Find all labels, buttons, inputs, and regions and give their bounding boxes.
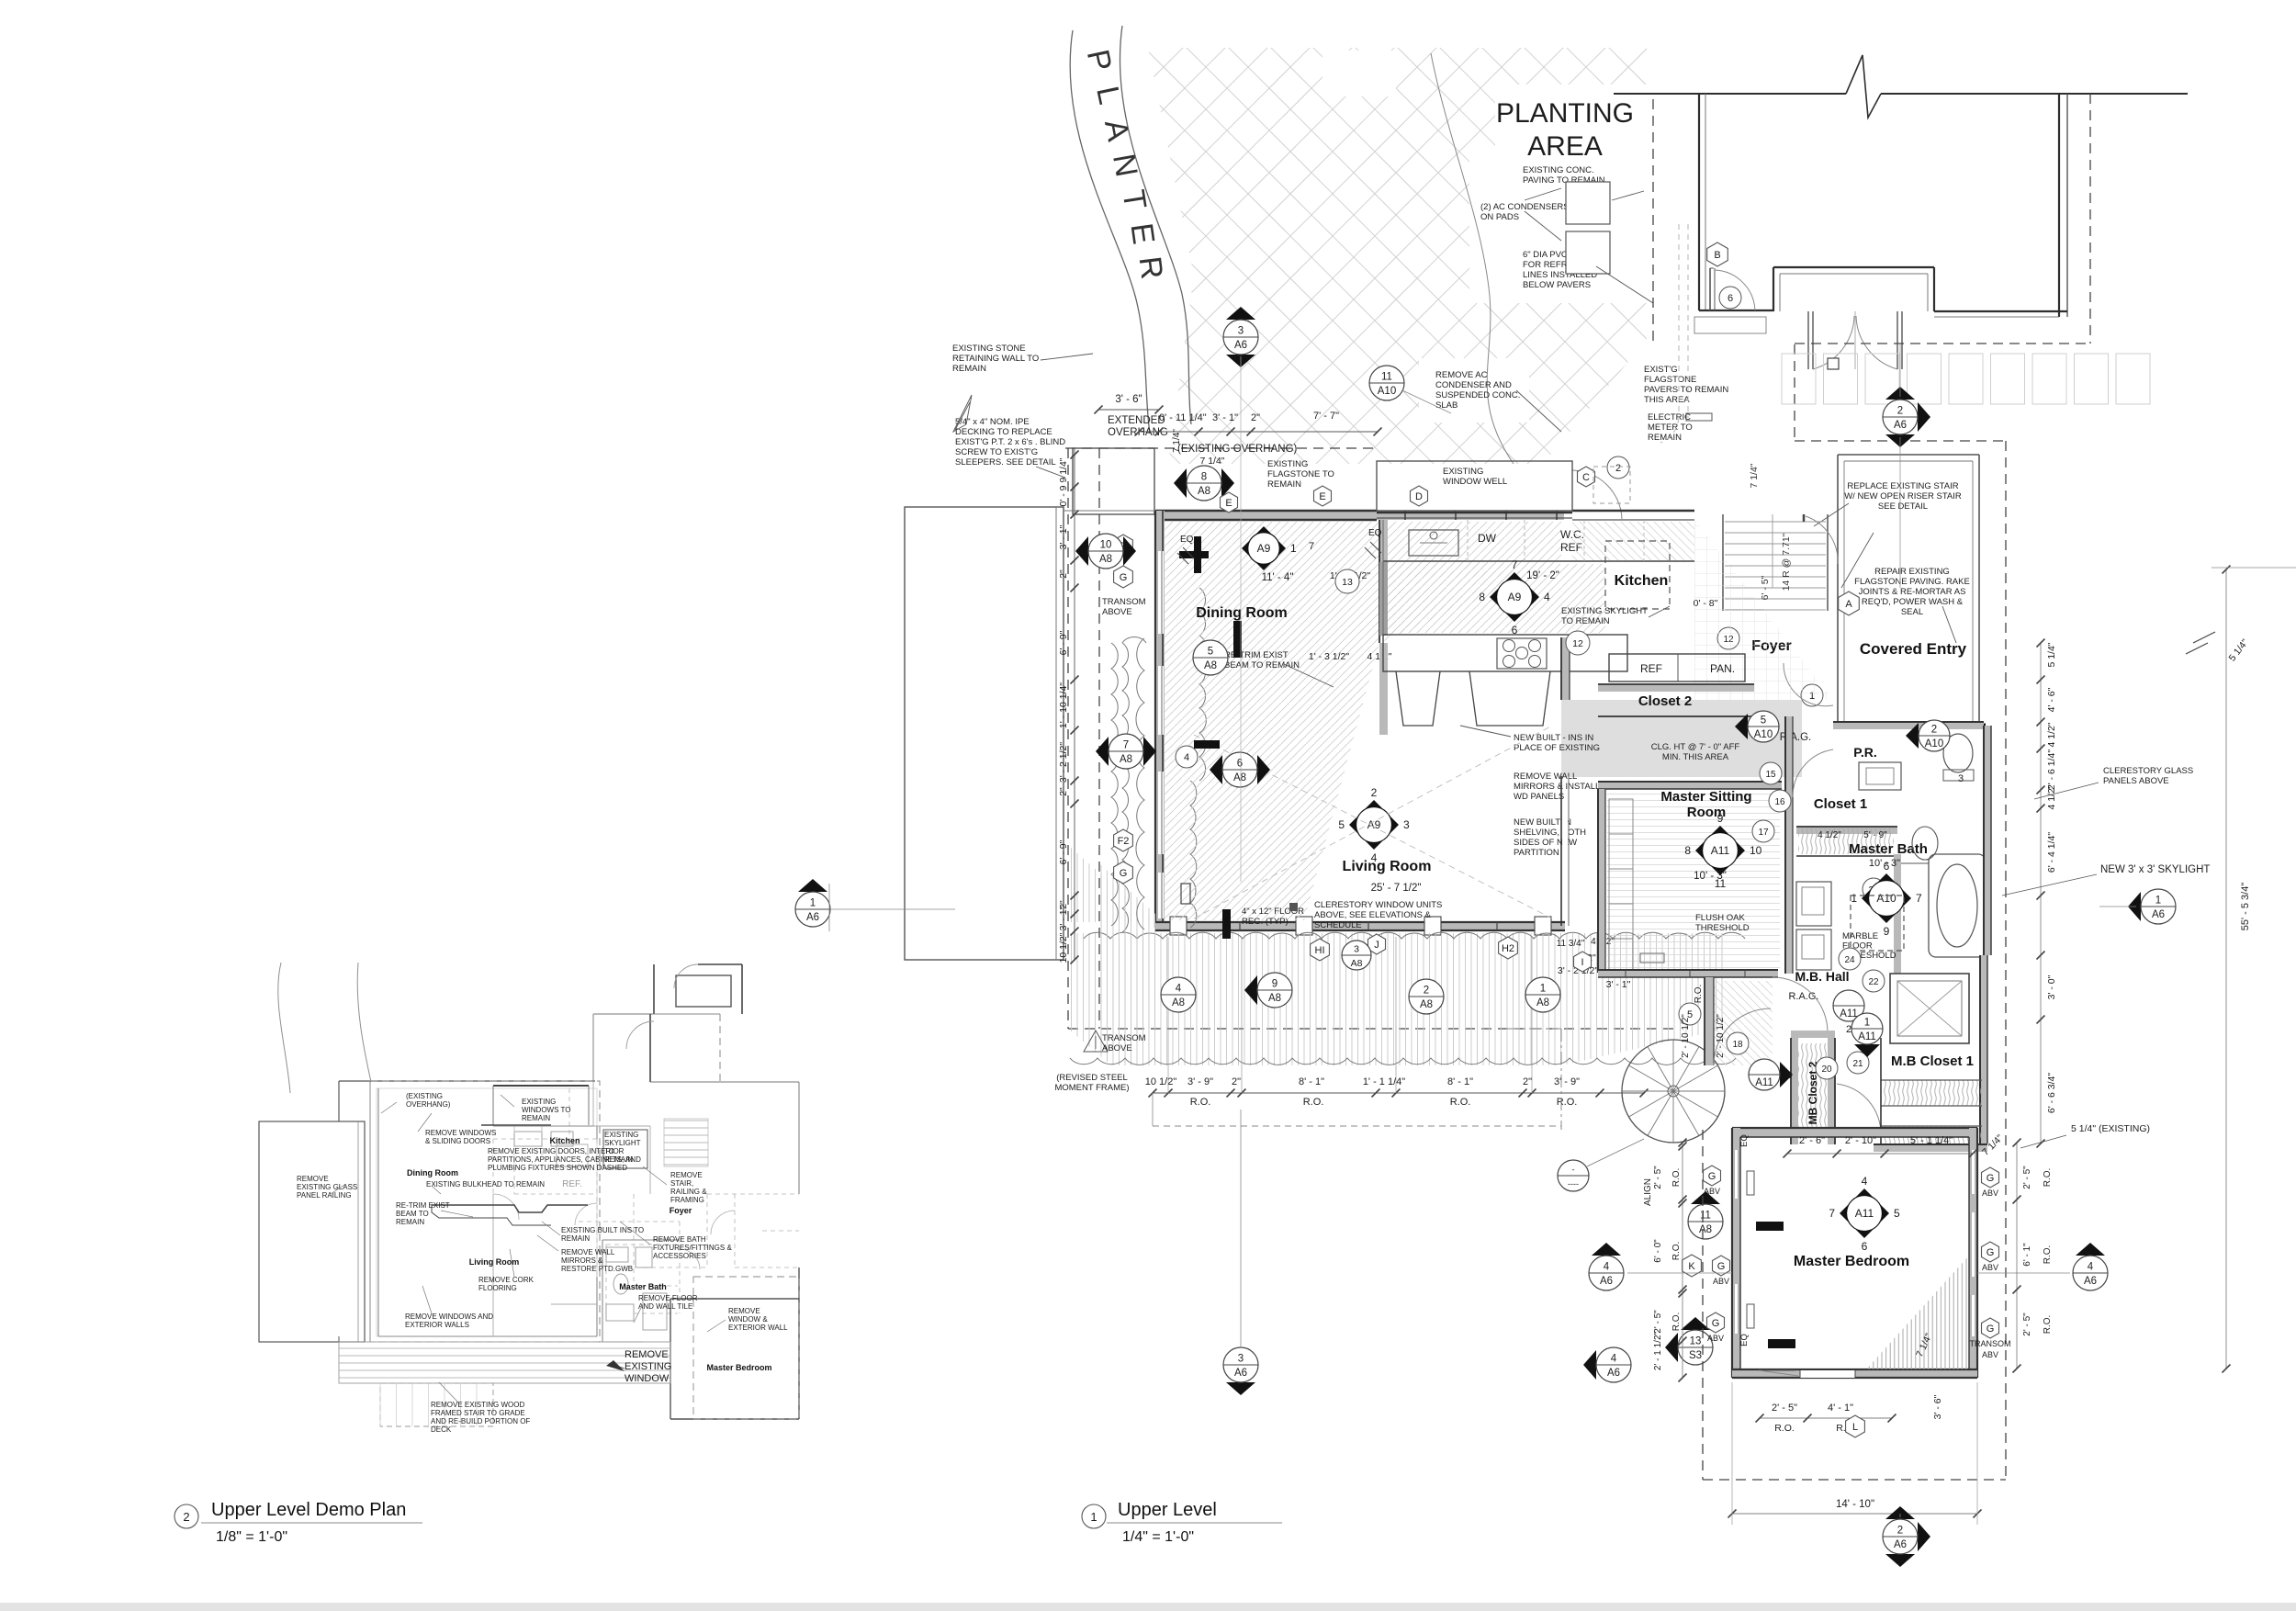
svg-text:3' - 9": 3' - 9" <box>1187 1076 1213 1087</box>
window well <box>1377 461 1572 511</box>
svg-text:A6: A6 <box>1600 1276 1613 1287</box>
svg-text:3: 3 <box>1238 1354 1244 1365</box>
spiral stair <box>1622 1040 1725 1143</box>
svg-text:R.O.: R.O. <box>1450 1097 1471 1108</box>
svg-text:RESTORE PTD.GWB: RESTORE PTD.GWB <box>561 1265 633 1273</box>
svg-text:REMOVE WINDOWS AND: REMOVE WINDOWS AND <box>405 1312 493 1321</box>
svg-text:A8: A8 <box>1351 958 1363 969</box>
svg-text:EXISTING: EXISTING <box>1267 459 1308 469</box>
kitchen counters <box>1383 560 1694 562</box>
svg-text:EXIST'G P.T. 2 x 6's . BLIND: EXIST'G P.T. 2 x 6's . BLIND <box>955 437 1065 447</box>
svg-text:2' - 10": 2' - 10" <box>1845 1135 1876 1146</box>
svg-text:17: 17 <box>1758 828 1769 838</box>
svg-text:18: 18 <box>1732 1040 1743 1050</box>
AC condenser pads <box>1566 182 1610 224</box>
svg-text:2' - 5": 2' - 5" <box>2022 1166 2032 1189</box>
svg-text:A9: A9 <box>1508 591 1522 603</box>
svg-text:A6: A6 <box>1234 340 1247 351</box>
svg-text:7 1/4": 7 1/4" <box>1749 463 1760 488</box>
svg-text:EXISTING: EXISTING <box>604 1131 638 1139</box>
svg-text:A8: A8 <box>1233 772 1246 783</box>
svg-text:THIS AREA: THIS AREA <box>1644 395 1690 405</box>
svg-text:Master Bath: Master Bath <box>619 1282 667 1291</box>
svg-text:FLOORING: FLOORING <box>478 1284 517 1292</box>
svg-text:REMOVE: REMOVE <box>297 1175 329 1183</box>
svg-text:PAVERS TO REMAIN: PAVERS TO REMAIN <box>1644 385 1728 395</box>
svg-text:ABV: ABV <box>1704 1187 1720 1196</box>
svg-text:D: D <box>1415 491 1423 502</box>
svg-text:AND WALL TILE: AND WALL TILE <box>638 1302 692 1311</box>
svg-text:A8: A8 <box>1120 754 1132 765</box>
svg-text:4: 4 <box>2088 1262 2094 1273</box>
svg-text:1: 1 <box>2155 896 2161 907</box>
svg-text:15: 15 <box>1765 770 1776 780</box>
svg-text:11: 11 <box>1700 1211 1711 1222</box>
master bath <box>1894 854 1901 974</box>
svg-text:DECKING TO REPLACE: DECKING TO REPLACE <box>955 427 1052 437</box>
svg-text:& SLIDING DOORS: & SLIDING DOORS <box>425 1137 490 1145</box>
svg-text:4 1/2": 4 1/2" <box>2046 784 2057 809</box>
svg-text:3: 3 <box>1958 773 1964 784</box>
stair <box>1722 514 1724 611</box>
svg-text:G: G <box>1708 1171 1716 1182</box>
svg-text:A8: A8 <box>1198 486 1210 497</box>
svg-text:PANELS ABOVE: PANELS ABOVE <box>2103 776 2169 786</box>
svg-text:A6: A6 <box>1894 420 1907 431</box>
svg-text:12: 12 <box>1572 638 1583 649</box>
left wall <box>1155 511 1165 928</box>
svg-text:EXTERIOR WALL: EXTERIOR WALL <box>728 1324 788 1332</box>
svg-text:A11: A11 <box>1755 1077 1773 1088</box>
svg-text:8' - 1": 8' - 1" <box>1447 1076 1473 1087</box>
svg-text:WINDOWS TO: WINDOWS TO <box>522 1106 570 1114</box>
svg-text:5' - 1 1/4": 5' - 1 1/4" <box>1910 1135 1953 1146</box>
svg-text:Foyer: Foyer <box>670 1206 692 1215</box>
svg-text:REMOVE: REMOVE <box>728 1307 760 1315</box>
svg-text:SHELVING, BOTH: SHELVING, BOTH <box>1514 828 1586 838</box>
svg-text:5' - 9": 5' - 9" <box>1863 830 1887 840</box>
svg-text:E: E <box>1319 491 1325 502</box>
svg-text:25' - 7 1/2": 25' - 7 1/2" <box>1371 883 1422 894</box>
svg-text:6' - 6 3/4": 6' - 6 3/4" <box>2046 1073 2057 1114</box>
svg-text:A11: A11 <box>1858 1031 1876 1042</box>
svg-text:A8: A8 <box>1099 554 1112 565</box>
svg-text:A8: A8 <box>1172 997 1185 1008</box>
closet 1 <box>1796 827 1897 834</box>
svg-text:WINDOW WELL: WINDOW WELL <box>1443 477 1507 487</box>
svg-text:REMOVE: REMOVE <box>670 1171 703 1179</box>
svg-text:A6: A6 <box>2084 1276 2097 1287</box>
svg-text:2": 2" <box>1058 787 1069 796</box>
svg-text:PANEL RAILING: PANEL RAILING <box>297 1191 352 1200</box>
svg-text:9 1/4": 9 1/4" <box>1058 457 1069 482</box>
svg-text:REG. (TYP): REG. (TYP) <box>1242 917 1289 927</box>
svg-text:6: 6 <box>1237 759 1243 770</box>
svg-text:1: 1 <box>1090 1510 1097 1524</box>
svg-text:6' - 4 1/4": 6' - 4 1/4" <box>2046 832 2057 873</box>
svg-text:EXISTING: EXISTING <box>522 1098 556 1106</box>
svg-text:EXIST'G: EXIST'G <box>1644 365 1678 375</box>
svg-text:OVERHANG): OVERHANG) <box>406 1100 451 1109</box>
svg-text:DW: DW <box>1478 532 1497 545</box>
svg-text:I: I <box>1581 957 1583 968</box>
svg-text:R.O.: R.O. <box>1303 1097 1324 1108</box>
flagstone pavers <box>1782 354 1816 404</box>
svg-text:REMOVE: REMOVE <box>625 1349 669 1360</box>
svg-text:3' - 1": 3' - 1" <box>1058 524 1069 549</box>
svg-text:8: 8 <box>1684 844 1691 857</box>
svg-text:R.O.: R.O. <box>1671 1242 1682 1261</box>
svg-text:6' - 1": 6' - 1" <box>2022 1243 2032 1267</box>
svg-text:G: G <box>1986 1247 1995 1258</box>
svg-text:2: 2 <box>1931 725 1937 736</box>
svg-text:7 1/4": 7 1/4" <box>1199 456 1224 467</box>
svg-text:Closet 1: Closet 1 <box>1814 796 1867 812</box>
svg-text:ACCESSORIES: ACCESSORIES <box>653 1252 706 1260</box>
svg-text:EXISTING: EXISTING <box>1443 467 1483 477</box>
svg-text:RE-TRIM EXIST: RE-TRIM EXIST <box>396 1201 450 1210</box>
svg-text:Upper Level: Upper Level <box>1118 1500 1217 1520</box>
svg-text:7: 7 <box>1916 892 1922 905</box>
floor registers <box>1179 551 1209 558</box>
svg-text:16: 16 <box>1774 797 1785 807</box>
master bedroom <box>1732 1128 1977 1137</box>
svg-text:G: G <box>1717 1261 1726 1272</box>
lower deck <box>1068 933 1727 1065</box>
svg-text:G: G <box>1712 1318 1720 1329</box>
svg-text:6: 6 <box>1728 293 1733 304</box>
svg-text:A8: A8 <box>1420 999 1433 1010</box>
svg-text:R.O.: R.O. <box>1671 1312 1682 1332</box>
svg-text:BEAM TO: BEAM TO <box>396 1210 429 1218</box>
svg-text:5 1/4" (EXISTING): 5 1/4" (EXISTING) <box>2071 1123 2150 1134</box>
svg-text:AREA: AREA <box>1527 131 1603 162</box>
svg-text:PARTITION: PARTITION <box>1514 848 1559 858</box>
svg-text:3' - 0": 3' - 0" <box>2046 974 2057 999</box>
svg-text:REPLACE EXISTING STAIR: REPLACE EXISTING STAIR <box>1847 481 1958 491</box>
svg-text:R: R <box>1132 254 1170 281</box>
svg-text:MIRRORS &: MIRRORS & <box>561 1256 603 1265</box>
svg-text:C: C <box>1582 472 1590 483</box>
svg-text:A11: A11 <box>1855 1207 1874 1220</box>
svg-text:RAILING &: RAILING & <box>670 1188 707 1196</box>
svg-text:11' - 4": 11' - 4" <box>1262 572 1294 583</box>
svg-text:H2: H2 <box>1502 943 1514 954</box>
svg-text:REMAIN: REMAIN <box>1267 479 1301 490</box>
svg-text:4' - 6": 4' - 6" <box>2046 687 2057 712</box>
svg-text:REMAIN: REMAIN <box>522 1114 550 1122</box>
svg-text:7: 7 <box>1123 740 1129 751</box>
svg-text:1' - 10 1/4": 1' - 10 1/4" <box>1058 682 1069 728</box>
svg-text:BEAM TO REMAIN: BEAM TO REMAIN <box>1224 660 1300 670</box>
svg-text:2": 2" <box>1058 569 1069 579</box>
svg-text:3' - 1": 3' - 1" <box>1606 979 1631 990</box>
svg-text:REMOVE WALL: REMOVE WALL <box>1514 772 1577 782</box>
svg-text:R.O.: R.O. <box>1557 1097 1578 1108</box>
svg-text:MIRRORS & INSTALL: MIRRORS & INSTALL <box>1514 782 1600 792</box>
svg-text:7: 7 <box>1309 541 1314 552</box>
svg-text:REMOVE EXISTING WOOD: REMOVE EXISTING WOOD <box>431 1401 524 1409</box>
svg-text:2: 2 <box>1846 1024 1851 1035</box>
svg-text:A6: A6 <box>2152 909 2165 920</box>
svg-text:W/ NEW OPEN RISER STAIR: W/ NEW OPEN RISER STAIR <box>1844 491 1962 501</box>
svg-text:ON PADS: ON PADS <box>1480 212 1519 222</box>
powder room <box>1833 722 1984 729</box>
svg-text:M.B Closet 1: M.B Closet 1 <box>1891 1053 1974 1069</box>
svg-text:0' - 11 1/4": 0' - 11 1/4" <box>1159 412 1207 423</box>
svg-text:2: 2 <box>1897 406 1903 417</box>
svg-text:PLUMBING FIXTURES SHOWN DASHED: PLUMBING FIXTURES SHOWN DASHED <box>488 1164 627 1172</box>
svg-text:5: 5 <box>1894 1207 1900 1220</box>
svg-text:CLG. HT @ 7' - 0" AFF: CLG. HT @ 7' - 0" AFF <box>1651 742 1740 752</box>
svg-text:1: 1 <box>1864 1018 1870 1029</box>
svg-text:A10: A10 <box>1876 892 1896 905</box>
svg-text:2' - 5": 2' - 5" <box>2022 1312 2032 1336</box>
svg-text:A6: A6 <box>1234 1368 1247 1379</box>
svg-text:ABOVE, SEE ELEVATIONS &: ABOVE, SEE ELEVATIONS & <box>1314 910 1432 920</box>
svg-text:FLUSH OAK: FLUSH OAK <box>1695 913 1746 923</box>
svg-text:2": 2" <box>1523 1076 1532 1087</box>
svg-text:R.O.: R.O. <box>2043 1168 2053 1188</box>
svg-text:4 1/2": 4 1/2" <box>2046 722 2057 747</box>
svg-text:Living Room: Living Room <box>1343 859 1432 874</box>
svg-text:Covered Entry: Covered Entry <box>1860 640 1967 658</box>
svg-text:SLEEPERS. SEE DETAIL: SLEEPERS. SEE DETAIL <box>955 457 1056 468</box>
svg-text:2' - 5": 2' - 5" <box>1653 1310 1663 1334</box>
svg-text:TO REMAIN: TO REMAIN <box>1561 616 1610 626</box>
svg-text:5: 5 <box>1208 647 1213 658</box>
svg-text:EXTENDED: EXTENDED <box>1108 415 1165 426</box>
svg-text:R.O.: R.O. <box>2043 1315 2053 1335</box>
svg-text:A6: A6 <box>1607 1368 1620 1379</box>
svg-text:FRAMING: FRAMING <box>670 1196 704 1204</box>
svg-text:3: 3 <box>1354 944 1359 955</box>
svg-text:NEW BUILT - INS IN: NEW BUILT - INS IN <box>1514 733 1593 743</box>
svg-text:REMAIN: REMAIN <box>952 364 986 374</box>
svg-text:1/4" = 1'-0": 1/4" = 1'-0" <box>1122 1529 1194 1545</box>
svg-text:5: 5 <box>1761 715 1766 727</box>
svg-text:G: G <box>1986 1173 1995 1184</box>
svg-text:2": 2" <box>1232 1076 1241 1087</box>
svg-text:J: J <box>1374 940 1379 951</box>
svg-text:F2: F2 <box>1118 836 1130 847</box>
top wall <box>1155 511 1564 520</box>
svg-text:TRANSOM: TRANSOM <box>1970 1339 2011 1348</box>
svg-text:REMOVE WALL: REMOVE WALL <box>561 1248 615 1256</box>
svg-text:CONDENSER AND: CONDENSER AND <box>1435 380 1512 390</box>
svg-text:5: 5 <box>1338 818 1345 831</box>
shaded low-ceiling area <box>1561 700 1802 777</box>
svg-text:EXISTING SKYLIGHT: EXISTING SKYLIGHT <box>1561 606 1648 616</box>
svg-text:10: 10 <box>1100 540 1112 551</box>
svg-text:ALIGN: ALIGN <box>1643 1178 1653 1206</box>
svg-text:BELOW PAVERS: BELOW PAVERS <box>1523 280 1591 290</box>
svg-text:FLAGSTONE TO: FLAGSTONE TO <box>1267 469 1334 479</box>
svg-text:TRANSOM: TRANSOM <box>1102 597 1146 607</box>
shower <box>1890 974 1969 1043</box>
svg-text:1' - 1 1/4": 1' - 1 1/4" <box>1363 1076 1405 1087</box>
svg-text:2' - 6": 2' - 6" <box>1799 1135 1825 1146</box>
svg-text:STAIR,: STAIR, <box>670 1179 693 1188</box>
svg-text:3' - 1": 3' - 1" <box>1058 906 1069 930</box>
svg-text:11 3/4": 11 3/4" <box>1557 939 1585 949</box>
svg-text:A8: A8 <box>1536 997 1549 1008</box>
svg-text:A: A <box>1845 599 1852 610</box>
svg-text:CLERESTORY WINDOW UNITS: CLERESTORY WINDOW UNITS <box>1314 900 1442 910</box>
svg-text:6: 6 <box>1884 860 1890 873</box>
svg-text:G: G <box>1986 1324 1995 1335</box>
svg-text:P.R.: P.R. <box>1853 745 1876 760</box>
svg-text:-: - <box>1572 1166 1575 1175</box>
svg-text:RETAINING WALL TO: RETAINING WALL TO <box>952 354 1039 364</box>
svg-text:0' - 9: 0' - 9 <box>1058 485 1069 506</box>
svg-text:EQ: EQ <box>1739 1334 1750 1346</box>
svg-text:A6: A6 <box>806 912 819 923</box>
svg-text:L: L <box>1852 1422 1858 1433</box>
svg-text:A6: A6 <box>1894 1539 1907 1550</box>
svg-text:DECK: DECK <box>431 1425 452 1434</box>
svg-text:A9: A9 <box>1257 542 1271 555</box>
svg-text:13: 13 <box>1690 1336 1702 1347</box>
svg-text:10: 10 <box>1750 844 1762 857</box>
svg-text:3: 3 <box>1403 818 1410 831</box>
svg-text:Master Bedroom: Master Bedroom <box>706 1363 771 1372</box>
svg-text:REMAIN: REMAIN <box>396 1218 424 1226</box>
svg-text:8: 8 <box>1201 472 1207 483</box>
svg-text:6: 6 <box>1512 624 1518 637</box>
svg-text:55' - 5 3/4": 55' - 5 3/4" <box>2240 883 2251 931</box>
svg-text:Upper Level Demo Plan: Upper Level Demo Plan <box>211 1500 406 1520</box>
svg-text:ABOVE: ABOVE <box>1102 1043 1132 1053</box>
svg-text:REF: REF <box>1640 662 1662 675</box>
svg-text:SLAB: SLAB <box>1435 400 1458 411</box>
svg-text:4: 4 <box>1176 984 1182 995</box>
svg-text:TRANSOM: TRANSOM <box>1102 1033 1146 1043</box>
svg-text:REMOVE CORK: REMOVE CORK <box>478 1276 535 1284</box>
svg-text:10' - 3": 10' - 3" <box>1694 871 1727 882</box>
left deck <box>905 507 1064 960</box>
svg-text:3: 3 <box>1786 1070 1792 1081</box>
svg-text:A10: A10 <box>1754 729 1773 740</box>
svg-text:10 1/2": 10 1/2" <box>1145 1076 1177 1087</box>
svg-text:1: 1 <box>1540 984 1546 995</box>
svg-text:1: 1 <box>1851 892 1857 905</box>
svg-text:4 1/2": 4 1/2" <box>1818 830 1841 840</box>
svg-text:6: 6 <box>1862 1240 1868 1253</box>
svg-text:Dining Room: Dining Room <box>1196 605 1288 621</box>
svg-text:24: 24 <box>1844 955 1855 965</box>
svg-text:REMAIN: REMAIN <box>1648 433 1682 443</box>
svg-text:EQ: EQ <box>1739 1134 1750 1147</box>
svg-text:EXISTING GLASS: EXISTING GLASS <box>297 1183 357 1191</box>
svg-text:M.B. Hall: M.B. Hall <box>1795 969 1849 984</box>
svg-text:METER TO: METER TO <box>1648 422 1693 433</box>
demo plan <box>278 963 290 1093</box>
svg-text:Kitchen: Kitchen <box>549 1136 580 1145</box>
svg-text:SUSPENDED CONC.: SUSPENDED CONC. <box>1435 390 1520 400</box>
master sitting room <box>1598 782 1782 789</box>
covered entry <box>1837 455 1839 724</box>
svg-text:3' - 1": 3' - 1" <box>1212 412 1238 423</box>
svg-text:A11: A11 <box>1711 844 1730 857</box>
svg-text:EXISTING: EXISTING <box>625 1361 671 1372</box>
svg-text:EQ: EQ <box>1180 535 1194 545</box>
svg-text:6' - 0": 6' - 0" <box>1653 1239 1663 1263</box>
svg-text:SCHEDULE: SCHEDULE <box>1314 920 1362 930</box>
closet 2 <box>1609 654 1745 682</box>
svg-text:SKYLIGHT: SKYLIGHT <box>604 1139 641 1147</box>
svg-text:----: ---- <box>1568 1179 1579 1189</box>
svg-text:CLERESTORY GLASS: CLERESTORY GLASS <box>2103 766 2193 776</box>
svg-text:REQ'D, POWER WASH &: REQ'D, POWER WASH & <box>1862 597 1964 607</box>
dining room <box>1165 522 1379 920</box>
bottom dims <box>1153 1092 1644 1094</box>
extended overhang (top-left) <box>1073 448 1154 514</box>
svg-text:ABV: ABV <box>1713 1277 1729 1286</box>
svg-text:(EXISTING OVERHANG): (EXISTING OVERHANG) <box>1177 444 1298 455</box>
svg-text:2: 2 <box>1897 1526 1903 1537</box>
svg-text:2: 2 <box>1615 463 1621 474</box>
svg-text:4: 4 <box>1604 1262 1610 1273</box>
svg-text:SCREW TO EXIST'G: SCREW TO EXIST'G <box>955 447 1038 457</box>
svg-text:EXISTING BULKHEAD TO REMAIN: EXISTING BULKHEAD TO REMAIN <box>426 1180 545 1189</box>
svg-text:2' - 1 1/2": 2' - 1 1/2" <box>1653 1331 1663 1370</box>
svg-text:ABV: ABV <box>1982 1189 1998 1198</box>
svg-text:8' - 1": 8' - 1" <box>1299 1076 1324 1087</box>
svg-text:NEW 3' x 3' SKYLIGHT: NEW 3' x 3' SKYLIGHT <box>2100 864 2210 875</box>
svg-text:7' - 7": 7' - 7" <box>1313 411 1339 422</box>
svg-text:(REVISED STEEL: (REVISED STEEL <box>1056 1073 1128 1083</box>
svg-text:22: 22 <box>1868 977 1879 987</box>
svg-text:R.O.: R.O. <box>2043 1245 2053 1265</box>
svg-text:Kitchen: Kitchen <box>1615 573 1669 589</box>
svg-text:ELECTRIC: ELECTRIC <box>1648 412 1691 422</box>
svg-text:2: 2 <box>183 1510 189 1524</box>
svg-text:6' - 9": 6' - 9" <box>1058 839 1069 864</box>
svg-text:Dining Room: Dining Room <box>407 1168 458 1177</box>
svg-text:MOMENT FRAME): MOMENT FRAME) <box>1054 1083 1129 1093</box>
svg-text:3' - 6": 3' - 6" <box>1932 1394 1943 1419</box>
svg-text:4: 4 <box>1371 851 1378 864</box>
svg-text:(2) AC CONDENSERS: (2) AC CONDENSERS <box>1480 202 1570 212</box>
svg-text:2' - 5": 2' - 5" <box>1772 1403 1797 1414</box>
living room east wall <box>1560 776 1562 926</box>
svg-text:REMAIN: REMAIN <box>561 1234 590 1243</box>
svg-text:REF.: REF. <box>562 1179 582 1189</box>
svg-text:3' - 2 1/2": 3' - 2 1/2" <box>1058 742 1069 783</box>
svg-text:8: 8 <box>1479 591 1485 603</box>
svg-text:EXISTING CONC.: EXISTING CONC. <box>1523 165 1594 175</box>
svg-text:7: 7 <box>1829 1207 1835 1220</box>
svg-text:K: K <box>1688 1261 1695 1272</box>
svg-text:Closet 2: Closet 2 <box>1638 693 1692 709</box>
svg-text:9: 9 <box>1272 979 1277 990</box>
svg-text:AND RE-BUILD PORTION OF: AND RE-BUILD PORTION OF <box>431 1417 530 1425</box>
svg-text:G: G <box>1120 572 1128 583</box>
svg-text:10 1/2": 10 1/2" <box>1058 932 1069 963</box>
svg-text:A9: A9 <box>1367 818 1381 831</box>
svg-text:2' - 5": 2' - 5" <box>1653 1166 1663 1189</box>
svg-text:6' - 9": 6' - 9" <box>1058 630 1069 655</box>
svg-text:A8: A8 <box>1268 993 1281 1004</box>
svg-text:FRAMED STAIR TO GRADE: FRAMED STAIR TO GRADE <box>431 1409 525 1417</box>
svg-text:REMAIN: REMAIN <box>604 1155 633 1164</box>
svg-text:2: 2 <box>1371 786 1378 799</box>
svg-text:5 1/4": 5 1/4" <box>2046 642 2057 667</box>
south clerestory wall <box>1155 922 1565 930</box>
svg-text:19' - 2": 19' - 2" <box>1526 570 1559 581</box>
svg-text:1: 1 <box>810 898 816 909</box>
